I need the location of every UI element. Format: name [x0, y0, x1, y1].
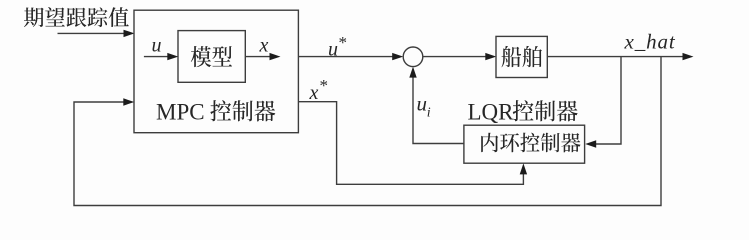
node: desired tracking value label 期望跟踪值 — [24, 7, 129, 27]
svg-text:x: x — [259, 35, 269, 57]
block: inner-loop controller (内环控制器) box — [464, 125, 585, 163]
svg-text:u: u — [152, 35, 162, 57]
svg-text:u: u — [417, 92, 428, 116]
svg-text:MPC: MPC — [156, 100, 205, 125]
wire: ship output line to x_hat arrow — [547, 56, 690, 58]
wire: u_i from inner-loop controller up into summing junction — [413, 70, 464, 144]
node: 船舶 label — [501, 46, 542, 67]
wire: x arrow out of model box — [245, 56, 277, 58]
svg-text:x_hat: x_hat — [624, 30, 676, 54]
wire: u* line from MPC to summing junction — [298, 56, 400, 58]
node: 模型 label — [191, 46, 232, 67]
wire: outer feedback tap 2 from x_hat line to MPC input — [74, 57, 661, 206]
svg-text:*: * — [320, 76, 329, 95]
junction: summing circle — [403, 47, 423, 67]
node: 内环控制器 label — [481, 133, 580, 153]
svg-text:*: * — [339, 33, 348, 52]
wire: x* feedback from MPC to inner-loop controller bottom — [298, 102, 523, 185]
svg-text:i: i — [427, 106, 431, 121]
wire: feedback tap 1 down to inner-loop controller right side — [588, 57, 621, 144]
svg-text:x: x — [309, 82, 319, 104]
svg-text:LQR: LQR — [468, 100, 515, 125]
wire: reference input arrow into MPC controller — [58, 32, 132, 34]
block: model (模型) box inside MPC — [178, 31, 245, 83]
wire: summing junction to ship box — [423, 56, 493, 58]
block: ship (船舶) box — [496, 36, 547, 77]
block: MPC controller outer box — [134, 10, 298, 133]
wire: u arrow into model box — [144, 56, 175, 58]
